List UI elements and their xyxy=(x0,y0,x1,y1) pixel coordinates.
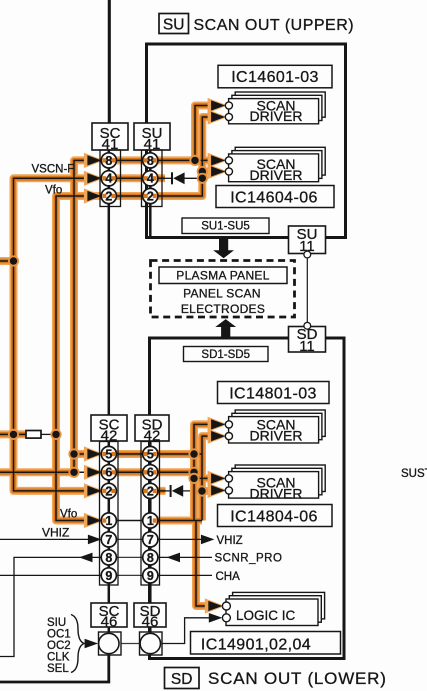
svg-text:46: 46 xyxy=(142,614,159,631)
wire net Vfo band xyxy=(56,117,215,521)
fat arrow from lower block up to plasma panel xyxy=(215,319,236,339)
svg-text:SIU: SIU xyxy=(47,617,66,629)
connector SC46 circle xyxy=(99,633,119,653)
svg-text:ELECTRODES: ELECTRODES xyxy=(181,302,265,316)
svg-text:LOGIC IC: LOGIC IC xyxy=(236,608,296,623)
wire net scan row8 halo xyxy=(0,106,215,473)
wire: CHA line from left edge into SC42 pin9 xyxy=(0,574,101,576)
wire: SC46 circle to SD46 circle xyxy=(109,643,151,645)
logic IC stack xyxy=(222,592,324,625)
scan driver stack L1 xyxy=(225,410,325,444)
svg-text:5: 5 xyxy=(147,447,154,461)
svg-text:IC14604-06: IC14604-06 xyxy=(230,190,318,207)
svg-text:IC14804-06: IC14804-06 xyxy=(230,509,318,526)
svg-text:4: 4 xyxy=(105,172,112,186)
svg-text:4: 4 xyxy=(147,172,154,186)
svg-text:2: 2 xyxy=(147,484,154,498)
wire net lower drivers core xyxy=(150,424,225,606)
IC14601-03 label box xyxy=(218,65,332,88)
wire: SC46 box to circle square xyxy=(108,626,111,636)
svg-text:SUSTAIN: SUSTAIN xyxy=(401,468,427,480)
wire: black segment SD42 pin2 to lower diode xyxy=(158,490,170,492)
svg-text:11: 11 xyxy=(299,338,315,355)
arrow out of SC42 pin8 leftward xyxy=(79,553,93,563)
svg-text:DRIVER: DRIVER xyxy=(250,485,303,501)
wire: row1 between SC42 and SD42 xyxy=(109,520,151,522)
svg-text:7: 7 xyxy=(147,533,154,547)
diode D lower at SD42 pin2 xyxy=(170,485,184,497)
svg-text:DRIVER: DRIVER xyxy=(250,108,303,124)
lower scan-out block border xyxy=(150,338,345,659)
svg-text:SCAN OUT (UPPER): SCAN OUT (UPPER) xyxy=(194,17,355,34)
svg-text:OC1: OC1 xyxy=(47,629,71,641)
svg-text:2: 2 xyxy=(147,189,154,203)
wire net lower drivers halo xyxy=(150,424,215,606)
wire: top vertical line into SC41 xyxy=(108,0,111,124)
connector SC41 pin rect xyxy=(100,150,121,207)
junction dots xyxy=(8,155,208,497)
SU1-SU5 label box xyxy=(182,218,269,234)
scan driver stack U1 xyxy=(225,92,325,124)
svg-text:DRIVER: DRIVER xyxy=(250,428,303,444)
orange highlighted nets xyxy=(0,106,225,607)
SD1-SD5 label box xyxy=(184,347,269,362)
orange highlighter nubs on pin circles xyxy=(102,158,156,523)
svg-text:SU: SU xyxy=(163,17,185,34)
IC14801-03 label box xyxy=(218,382,330,404)
svg-text:9: 9 xyxy=(147,569,154,583)
svg-text:7: 7 xyxy=(105,533,112,547)
svg-text:8: 8 xyxy=(105,154,112,168)
fat arrow from upper block down to plasma panel xyxy=(213,239,234,258)
svg-text:IC14601-03: IC14601-03 xyxy=(231,69,319,86)
wire: black segment SU41 pin4 to upper diode xyxy=(158,177,171,179)
svg-text:SCNR_PRO: SCNR_PRO xyxy=(215,553,283,565)
scan driver stack L2 xyxy=(225,465,325,501)
IC14901,02,04 label box xyxy=(191,632,341,655)
wire: VHIZ output right of SD42 pin7 xyxy=(158,538,202,540)
svg-text:5: 5 xyxy=(105,447,112,461)
wire net Vfo core xyxy=(56,117,224,521)
footer SD tag box xyxy=(165,668,200,689)
svg-text:SEL: SEL xyxy=(47,663,69,675)
header SU tag box xyxy=(159,14,189,34)
plasma panel dashed box xyxy=(151,261,295,318)
connector SU41 box xyxy=(134,123,170,153)
diode D upper at SU41 pin4 xyxy=(171,172,185,184)
wire: CHA right of SD42 pin9 xyxy=(158,574,212,576)
arrow SIU group into SC46 xyxy=(85,639,99,649)
wire net scan row8 core xyxy=(0,106,224,473)
connector SU11 box xyxy=(289,226,326,255)
wire: black segment lower diode to junction xyxy=(183,490,202,492)
connector SD42 box xyxy=(135,415,169,445)
arrow VHIZ out right xyxy=(201,535,215,545)
svg-text:2: 2 xyxy=(105,484,112,498)
svg-text:IC14801-03: IC14801-03 xyxy=(229,386,317,403)
svg-text:Vfo: Vfo xyxy=(60,509,77,521)
connector SC41 box xyxy=(92,123,128,153)
plasma panel inner box xyxy=(159,267,287,284)
svg-text:1: 1 xyxy=(147,514,154,528)
svg-text:8: 8 xyxy=(147,551,154,565)
svg-text:VSCN-F: VSCN-F xyxy=(32,164,75,176)
svg-text:1: 1 xyxy=(105,514,112,528)
node SU11 pin circle xyxy=(304,251,311,258)
svg-text:9: 9 xyxy=(105,569,112,583)
arrow SCNR_PRO into SD42 pin8 xyxy=(167,553,181,563)
svg-text:VHIZ: VHIZ xyxy=(217,535,243,547)
IC14604-06 label box xyxy=(216,186,334,208)
svg-text:Vfo: Vfo xyxy=(45,185,62,197)
brace for SIU OC1 OC2 CLK SEL xyxy=(71,615,84,673)
connector SD46 square xyxy=(140,632,163,655)
connector SC46 box xyxy=(91,603,127,631)
wire: row7 between SC42 and SD42 xyxy=(109,538,151,540)
SC42 and SD42 pin circles xyxy=(101,446,158,583)
wire: VHIZ input from left edge into SC42 pin7 xyxy=(0,538,90,540)
wire net scan row8 band xyxy=(0,106,215,473)
svg-text:8: 8 xyxy=(105,551,112,565)
arrow into SC42 pin7 VHIZ xyxy=(88,535,102,545)
wire: row8 between SC42 and SD42 xyxy=(109,556,151,558)
node SD11 pin circle xyxy=(304,322,311,329)
wire: thick ground return from SC46 circle to left edge xyxy=(0,653,109,682)
svg-text:SD: SD xyxy=(171,671,193,688)
svg-text:6: 6 xyxy=(105,466,112,480)
IC14804-06 label box xyxy=(218,505,333,527)
svg-text:IC14901,02,04: IC14901,02,04 xyxy=(201,637,311,654)
wire: SU column vertical SU41 to upper block bottom border xyxy=(149,149,152,237)
connector SD11 box xyxy=(289,326,326,355)
wire: SU11 to SD11 vertical link xyxy=(306,254,308,326)
svg-text:SU1-SU5: SU1-SU5 xyxy=(201,221,250,233)
wire net lower drivers band xyxy=(150,424,215,606)
svg-text:PANEL SCAN: PANEL SCAN xyxy=(183,287,261,301)
svg-text:46: 46 xyxy=(101,614,118,631)
wire: SC column vertical inside SC42 down to SC46 xyxy=(108,442,111,605)
svg-text:CHA: CHA xyxy=(216,571,241,583)
connector SC42 box xyxy=(91,415,127,445)
resistor R (unlabelled) on left feed line xyxy=(26,431,41,439)
wire: SD column vertical inside SD42 down to SD46 xyxy=(149,442,152,605)
arrow into LOGIC IC pin2 xyxy=(209,613,223,623)
svg-text:CLK: CLK xyxy=(47,652,70,664)
svg-text:DRIVER: DRIVER xyxy=(250,167,303,183)
svg-text:VHIZ: VHIZ xyxy=(42,526,69,540)
wire net VSCN-F band xyxy=(0,178,165,491)
wire net VSCN-F halo xyxy=(0,178,165,491)
connector SU41 pin rect xyxy=(142,150,163,207)
connector SC42 pin rect xyxy=(100,442,119,586)
svg-text:SCAN OUT (LOWER): SCAN OUT (LOWER) xyxy=(208,669,387,688)
svg-text:2: 2 xyxy=(105,189,112,203)
svg-text:PLASMA PANEL: PLASMA PANEL xyxy=(176,268,269,282)
wire: SD46 box to circle square xyxy=(149,626,152,636)
svg-text:8: 8 xyxy=(147,154,154,168)
wire net Vfo halo xyxy=(56,117,215,521)
wire: black segment upper diode to junction xyxy=(185,177,203,179)
upper scan-out block border xyxy=(147,44,346,238)
wire: SD46 circle to LOGIC IC pin2 xyxy=(161,618,211,644)
connector SC46 square xyxy=(99,632,122,655)
wire: SCNR_PRO into SD42 pin8 xyxy=(158,556,212,558)
pin numbers SC41 SU41 xyxy=(105,154,154,204)
scan driver stack U2 xyxy=(225,147,325,183)
wire: row9 between SC42 and SD42 xyxy=(109,574,151,576)
pin numbers SC42 SD42 xyxy=(105,447,154,582)
wire: SCNR return from SC42 pin8 to left edge bottom xyxy=(0,557,101,656)
wire: black segment resistor to Vfo vertical xyxy=(41,433,56,435)
SC41 pin circles xyxy=(101,153,158,204)
wire: SC column vertical SC41 to SC42 xyxy=(108,149,111,416)
connector SD46 circle xyxy=(140,633,160,653)
connector SD46 box xyxy=(134,603,166,631)
svg-text:SD1-SD5: SD1-SD5 xyxy=(201,349,250,361)
svg-text:6: 6 xyxy=(147,466,154,480)
wire net VSCN-F core xyxy=(0,178,165,491)
black arrowheads xyxy=(79,535,222,649)
orange-backed arrowheads xyxy=(84,98,228,614)
connector SD42 pin rect xyxy=(141,442,160,586)
svg-text:OC2: OC2 xyxy=(47,640,71,652)
